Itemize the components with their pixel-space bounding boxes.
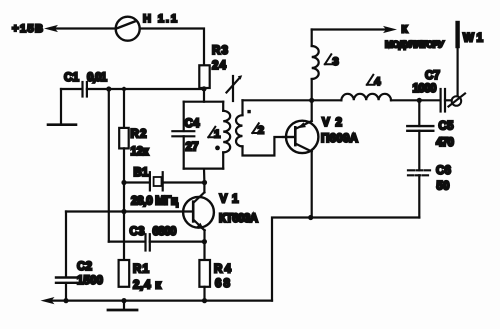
svg-text:Н 1.1: Н 1.1: [143, 13, 177, 25]
lamp H1.1: [116, 13, 177, 41]
resistor R2: [119, 128, 148, 159]
wire line B (R2 to R1): [123, 148, 125, 260]
node bus-R2: [122, 87, 126, 91]
wire lamp-to-R3: [140, 29, 204, 66]
node C3-emitter: [202, 239, 207, 244]
resistor R4: [199, 242, 231, 301]
svg-text:2,4 к: 2,4 к: [133, 279, 161, 292]
inductor L4: [312, 75, 420, 101]
trimmer core arrow: [227, 75, 243, 101]
wire bus y89: [87, 88, 204, 90]
capacitor C4: [172, 117, 200, 154]
node L4-C7-C5: [417, 98, 422, 103]
svg-text:R2: R2: [131, 128, 147, 141]
svg-text:С2: С2: [77, 260, 92, 273]
wire V2 emitter up: [311, 100, 313, 121]
node base wire: [121, 209, 126, 214]
svg-text:С6: С6: [436, 164, 452, 177]
svg-text:6800: 6800: [153, 225, 177, 238]
svg-text:С7: С7: [425, 69, 440, 82]
node rail-R4: [202, 298, 207, 303]
svg-text:12к: 12к: [131, 145, 149, 158]
resistor R1: [119, 260, 162, 292]
node collector-bottom wire: [308, 215, 313, 220]
svg-text:R1: R1: [133, 263, 150, 276]
svg-text:24: 24: [212, 59, 227, 72]
svg-text:3: 3: [333, 56, 339, 68]
wire to modulator with arrow: [312, 25, 444, 51]
capacitor C3: [109, 225, 205, 251]
wire supply-to-lamp: [55, 27, 116, 29]
transistor V2: [283, 116, 359, 153]
svg-text:50: 50: [437, 180, 450, 193]
inductor L1: [208, 102, 230, 169]
svg-text:27: 27: [186, 141, 199, 154]
+15V supply arrow: [12, 23, 58, 35]
capacitor C5: [407, 100, 454, 170]
svg-text:1000: 1000: [413, 82, 437, 95]
node B1 branch: [121, 180, 126, 185]
svg-text:С5: С5: [439, 120, 455, 133]
tank circuit C4/L1 rectangle: [184, 102, 224, 169]
capacitor C7: [413, 69, 452, 112]
wire line B top (bus to R2): [123, 89, 125, 128]
node L2 phasing dot: [247, 110, 250, 113]
svg-text:R3: R3: [212, 44, 229, 57]
svg-text:С1: С1: [64, 71, 80, 84]
svg-text:1500: 1500: [77, 274, 103, 287]
wire line A (bus to C3): [108, 89, 110, 242]
antenna connector: [449, 94, 466, 107]
wire tank top stub: [203, 89, 205, 102]
svg-text:28,0 МГц: 28,0 МГц: [131, 195, 179, 208]
capacitor C6: [408, 164, 452, 218]
node bus-lineA: [106, 86, 111, 91]
ground (C1): [48, 89, 76, 125]
node crystal-collector: [202, 180, 207, 185]
inductor L3: [312, 30, 339, 101]
ground rail with arrow: [41, 297, 273, 304]
svg-text:68: 68: [215, 277, 231, 290]
svg-text:4: 4: [374, 76, 381, 88]
svg-text:К: К: [402, 25, 409, 36]
svg-text:470: 470: [436, 136, 454, 149]
node emitter-L3-L2: [309, 98, 314, 103]
wire bottom right: [272, 218, 419, 301]
crystal B1: [124, 166, 205, 208]
inductor L2: [236, 100, 295, 155]
svg-text:2: 2: [258, 124, 264, 136]
wire V1 base: [66, 210, 193, 212]
wire tank bottom stub: [203, 169, 206, 183]
node rail-R1: [121, 298, 126, 303]
svg-text:В1: В1: [134, 166, 150, 179]
svg-text:W1: W1: [463, 32, 484, 45]
node bus-R3-tank: [201, 86, 206, 91]
capacitor C1: [61, 71, 108, 97]
transistor V1: [183, 192, 259, 241]
antenna W1: [458, 23, 484, 96]
svg-text:+15В: +15В: [12, 23, 43, 35]
resistor R3: [199, 44, 228, 88]
svg-text:0,01: 0,01: [87, 71, 108, 84]
wire V2 collector down: [311, 152, 313, 218]
svg-text:П609А: П609А: [321, 132, 359, 145]
svg-text:КТ603А: КТ603А: [219, 212, 259, 225]
node L1 phasing dot: [215, 146, 220, 151]
capacitor C2: [56, 212, 103, 301]
svg-text:С3: С3: [130, 225, 146, 238]
wire L2 top: [243, 99, 312, 101]
node rail-C2: [63, 298, 68, 303]
wire collector V1: [203, 183, 205, 193]
svg-text:С4: С4: [185, 117, 201, 130]
ground (under R1): [108, 301, 137, 310]
svg-text:1: 1: [214, 129, 220, 141]
svg-text:МОДУЛЯТОРУ: МОДУЛЯТОРУ: [385, 40, 444, 51]
